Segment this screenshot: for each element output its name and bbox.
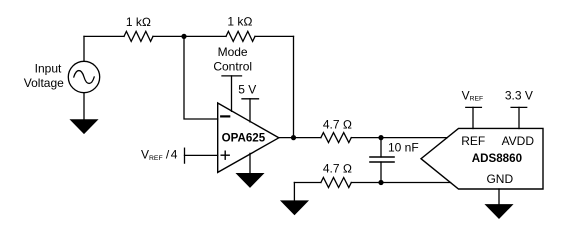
wire R1 to R2 through node A — [153, 35, 226, 37]
capacitor C1 10 nF — [370, 156, 394, 158]
svg-text:Input: Input — [35, 62, 62, 76]
op-amp U1 plus input symbol — [221, 154, 229, 156]
svg-text:3.3 V: 3.3 V — [505, 89, 533, 103]
wire top rail from source to R1 — [84, 35, 124, 37]
output node junction dot — [291, 135, 296, 140]
svg-text:ADS8860: ADS8860 — [472, 152, 522, 165]
svg-text:10 nF: 10 nF — [388, 141, 419, 155]
wire source top lead — [83, 36, 85, 61]
GND pin wire — [498, 189, 500, 205]
wire R3 to ADC AINP — [351, 137, 447, 139]
svg-text:4.7 Ω: 4.7 Ω — [323, 117, 352, 131]
AVDD 3.3V pin wire — [518, 107, 520, 128]
wire op-amp ground lead — [249, 153, 251, 173]
node C junction dot — [378, 180, 383, 185]
resistor R4 4.7 Ohm — [321, 178, 351, 188]
resistor R2 1 kOhm feedback — [226, 31, 255, 41]
wire bottom rail ground drop — [293, 183, 295, 202]
node A junction dot — [181, 34, 186, 39]
wire source bottom lead — [83, 93, 85, 120]
VREF/4 net tick — [184, 148, 186, 163]
5V supply bar — [242, 98, 259, 100]
ground GND4 below ADC — [486, 205, 512, 218]
op-amp U1 OPA625 triangle — [218, 103, 279, 172]
svg-text:Control: Control — [213, 60, 252, 74]
VREF pin bar — [466, 106, 482, 108]
node B junction dot — [378, 135, 383, 140]
svg-text:1 kΩ: 1 kΩ — [227, 14, 252, 28]
ground GND2 below op-amp — [237, 174, 263, 187]
wire feedback vertical to output node — [293, 36, 295, 137]
op-amp U1 minus input symbol — [221, 115, 229, 117]
mode control pin bar — [222, 75, 242, 77]
mode control pin wire — [231, 76, 233, 111]
wire bottom rail to R4 — [294, 182, 321, 184]
wire non-inverting input VREF/4 — [185, 154, 218, 156]
svg-text:GND: GND — [486, 172, 513, 186]
svg-text:1 kΩ: 1 kΩ — [126, 15, 151, 29]
wire R2 to feedback corner — [255, 35, 294, 37]
svg-text:5 V: 5 V — [238, 83, 256, 97]
resistor R3 4.7 Ohm — [321, 133, 351, 143]
ground GND1 below source — [71, 120, 97, 133]
svg-text:OPA625: OPA625 — [222, 131, 266, 144]
wire cap bottom lead — [380, 162, 382, 183]
wire cap top lead — [380, 138, 382, 157]
svg-text:AVDD: AVDD — [502, 134, 535, 148]
svg-text:VREF: VREF — [462, 89, 484, 103]
ground GND3 bottom rail — [282, 201, 308, 214]
source V1 input voltage circle — [68, 61, 99, 92]
wire op-amp output to R3 — [279, 137, 321, 139]
wire inverting input from node A — [184, 36, 218, 119]
svg-text:VREF/4: VREF/4 — [141, 148, 178, 162]
svg-text:Mode: Mode — [218, 45, 248, 59]
source V1 sine symbol — [74, 71, 94, 84]
5V supply wire — [249, 99, 251, 122]
ADC U2 ADS8860 outline — [421, 128, 543, 189]
wire R4 to ADC AINM — [351, 182, 450, 184]
svg-text:4.7 Ω: 4.7 Ω — [323, 162, 352, 176]
svg-text:REF: REF — [461, 134, 485, 148]
svg-text:Voltage: Voltage — [24, 76, 64, 90]
AVDD 3.3V pin bar — [511, 106, 527, 108]
VREF pin wire — [472, 107, 474, 128]
resistor R1 1 kOhm — [124, 31, 153, 41]
